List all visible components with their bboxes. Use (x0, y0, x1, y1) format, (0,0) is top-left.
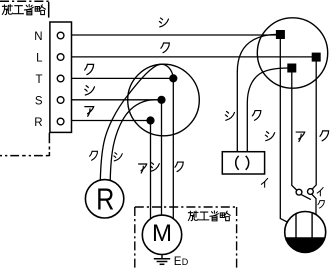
node S junction dot (157, 96, 165, 104)
boundary 施工省略 (top-left, dash-dot) : top edge (0, 0, 49, 2)
wire: motor red ア down from node R (150, 121, 152, 228)
node R junction dot (146, 116, 154, 124)
svg-text:T: T (35, 74, 42, 86)
wire: lamp black ク down from switch (312, 194, 316, 223)
label ク (lamp black wire) (318, 201, 324, 208)
wire: pilot-box left lead up to node N (シ) (237, 34, 276, 152)
wire: receptacle black ク curving up to node T (100, 64, 173, 181)
wire: motor black ク down from node T (172, 78, 174, 227)
wire: receptacle white シ curving up to node S (110, 100, 161, 181)
label ク (T wire) (85, 64, 94, 74)
node T junction dot (169, 74, 177, 82)
label ア (motor red wire) (139, 164, 147, 173)
label ク (pilot box right wire) (252, 111, 260, 121)
junction box (top-right circle) (257, 18, 327, 88)
terminal L (57, 54, 64, 61)
lamp receptacle R (85, 180, 123, 218)
label ク (motor black wire) (175, 162, 183, 171)
wire: pilot-box right lead up to node A (ク) (247, 68, 287, 152)
label シ (S wire) (85, 86, 95, 95)
label ア (R wire) (85, 107, 94, 117)
svg-text:R: R (34, 117, 42, 129)
wire: switch lead ク down from node L (312, 62, 316, 189)
svg-text:N: N (34, 31, 42, 43)
node L connector square (312, 53, 321, 62)
terminal S (57, 97, 64, 104)
svg-text:M: M (152, 220, 172, 247)
label イ (pilot box) (261, 178, 267, 187)
wire N (white シ) (64, 34, 276, 36)
wire S (white シ) (64, 99, 162, 101)
boundary motor box: right edge (236, 207, 238, 269)
wire: motor white シ down from node S (161, 100, 163, 223)
terminal N (57, 32, 64, 39)
svg-text:D: D (182, 257, 189, 267)
node A connector square (287, 64, 296, 73)
label シ (N wire) (159, 18, 168, 27)
svg-text:S: S (35, 95, 43, 107)
label 施工省略 (motor box) (188, 211, 230, 221)
terminal T (57, 75, 64, 82)
switch イ blade (301, 195, 311, 200)
boundary motor box: left edge (134, 207, 136, 269)
wire L (black ク) (64, 56, 312, 58)
boundary 施工省略 bottom-left: right edge lower dash-dot (48, 133, 50, 156)
boundary 施工省略 (motor, dash-dot): top edge (135, 206, 237, 208)
ground Ed (161, 255, 163, 259)
label シ (motor white wire) (150, 163, 159, 172)
switch イ contact 1 (296, 189, 302, 195)
boundary 施工省略 bottom-left: bottom edge dash-dot (0, 155, 49, 157)
label ア (switch wire) (296, 132, 305, 141)
svg-text:R: R (96, 182, 114, 216)
svg-text:E: E (174, 256, 182, 268)
wire R (red ア) (64, 120, 151, 122)
label ク (L wire) (161, 43, 169, 53)
label シ (pilot box left wire) (225, 111, 234, 120)
node N connector square (276, 30, 285, 39)
junction box (middle circle) (128, 64, 200, 136)
switch イ contact 2 (308, 189, 314, 195)
label ク (receptacle left wire) (90, 151, 98, 160)
power source terminal block (50, 22, 72, 132)
wire T (black ク) (64, 77, 173, 79)
label 施工省略 (top-left) (2, 5, 45, 15)
motor M (142, 215, 181, 254)
ceiling lamp (285, 212, 326, 253)
label ク (switch feed wire) (320, 131, 329, 141)
wire: switch lead ア down from node A (292, 73, 297, 191)
label シ (receptacle right wire) (114, 153, 122, 161)
wire: lamp white シ down from node N (280, 39, 289, 223)
terminal R (57, 118, 64, 125)
boundary 施工省略 top-left: right edge upper dash (48, 2, 50, 18)
label イ (switch) (317, 188, 323, 196)
label シ (lamp white wire) (265, 132, 274, 141)
pilot lamp box ( ) (222, 152, 264, 174)
svg-text:L: L (36, 52, 43, 64)
